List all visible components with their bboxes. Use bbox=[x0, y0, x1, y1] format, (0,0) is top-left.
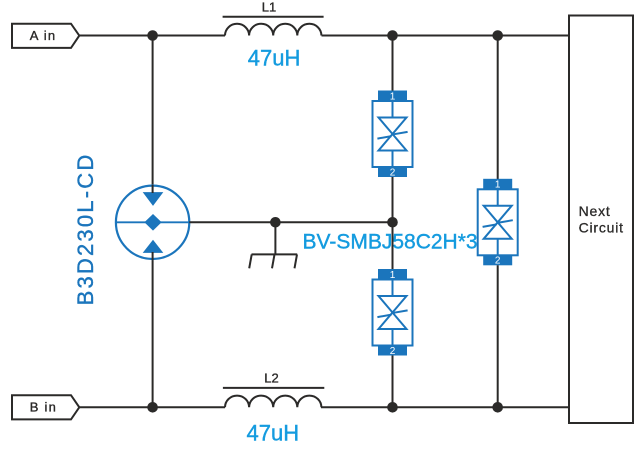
connector B-in bbox=[12, 395, 79, 419]
svg-text:2: 2 bbox=[495, 256, 501, 267]
junction top-right bbox=[492, 30, 503, 41]
TVS diode D2 (middle lower) bbox=[373, 269, 413, 357]
wire top to TVS D1 bbox=[392, 36, 394, 92]
wire A-in to L1 bbox=[79, 35, 225, 37]
wire B-in to L2 bbox=[79, 406, 225, 408]
svg-text:47uH: 47uH bbox=[247, 420, 300, 445]
ground bbox=[249, 222, 297, 268]
junction top-middle bbox=[387, 30, 398, 41]
svg-text:1: 1 bbox=[390, 91, 396, 102]
junction top-left bbox=[147, 30, 158, 41]
svg-text:L1: L1 bbox=[262, 0, 276, 15]
gas discharge tube B3D230L-CD bbox=[116, 185, 189, 260]
junction at ground tap bbox=[270, 217, 281, 228]
wire TVS D1 to mid junction bbox=[392, 177, 394, 222]
TVS diode D1 (middle upper) bbox=[373, 91, 413, 179]
svg-text:47uH: 47uH bbox=[248, 46, 301, 71]
Next Circuit block bbox=[569, 16, 633, 424]
wire TVS D2 to bottom bbox=[392, 356, 394, 408]
svg-text:Circuit: Circuit bbox=[579, 220, 624, 236]
inductor L1 bbox=[223, 0, 324, 36]
wire L1 to Next Circuit bbox=[322, 35, 571, 37]
inductor L2 bbox=[223, 370, 324, 407]
svg-text:2: 2 bbox=[390, 346, 396, 357]
wire L2 to Next Circuit bbox=[321, 406, 570, 408]
connector A-in bbox=[12, 24, 79, 48]
wire GDT down to bottom junction bbox=[152, 253, 154, 407]
svg-text:2: 2 bbox=[390, 167, 396, 178]
svg-text:Next: Next bbox=[579, 203, 611, 219]
wire GDT to middle column bbox=[189, 221, 392, 223]
wire TVS D3 to bottom bbox=[497, 265, 499, 407]
svg-text:A in: A in bbox=[30, 28, 56, 43]
wire mid junction to TVS D2 bbox=[392, 222, 394, 270]
svg-text:BV-SMBJ58C2H*3: BV-SMBJ58C2H*3 bbox=[303, 230, 478, 253]
junction bottom-right bbox=[492, 402, 503, 413]
svg-text:B3D230L-CD: B3D230L-CD bbox=[73, 153, 98, 306]
wire top to TVS D3 bbox=[497, 36, 499, 181]
wire top junction down to GDT bbox=[152, 36, 154, 193]
svg-text:1: 1 bbox=[495, 180, 501, 191]
junction bottom-left bbox=[147, 402, 158, 413]
junction middle column mid bbox=[387, 217, 398, 228]
svg-text:L2: L2 bbox=[264, 370, 278, 385]
TVS diode D3 (right) bbox=[478, 179, 518, 267]
svg-text:B in: B in bbox=[30, 400, 57, 415]
svg-text:1: 1 bbox=[390, 270, 396, 281]
junction bottom-middle bbox=[387, 402, 398, 413]
